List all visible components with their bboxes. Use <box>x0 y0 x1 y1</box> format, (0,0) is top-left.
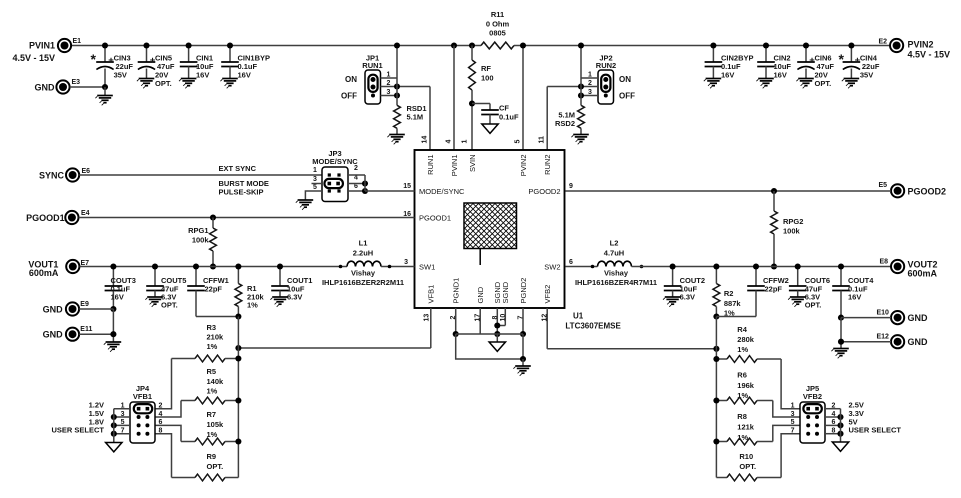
resistor R10 <box>716 452 781 481</box>
ground below PGND <box>513 359 530 376</box>
wire VFB2 <box>547 308 719 352</box>
pin RUN2 11 <box>539 136 552 175</box>
resistor RSD1 <box>394 96 427 135</box>
svg-text:210k: 210k <box>207 333 225 342</box>
svg-text:1: 1 <box>313 167 317 174</box>
resistor R2 <box>713 263 741 319</box>
wire VOUT2 rail <box>632 266 892 268</box>
svg-text:22pF: 22pF <box>765 285 783 294</box>
svg-text:0.1uF: 0.1uF <box>499 113 519 122</box>
svg-text:E9: E9 <box>80 301 89 308</box>
svg-text:Vishay: Vishay <box>604 269 629 278</box>
wire JP4 select bus to ground <box>111 409 130 443</box>
svg-text:4.7uH: 4.7uH <box>604 249 624 258</box>
svg-text:GND: GND <box>476 286 485 303</box>
resistor R4 <box>713 325 781 362</box>
svg-text:E8: E8 <box>880 258 889 265</box>
capacitor CIN6 <box>797 42 834 88</box>
svg-text:15: 15 <box>403 183 411 190</box>
pin PGOOD1 16 <box>403 211 451 222</box>
wire JP3 pin2 <box>348 174 365 176</box>
svg-text:SVIN: SVIN <box>468 155 477 173</box>
svg-text:*: * <box>91 51 97 67</box>
svg-text:1: 1 <box>588 72 592 79</box>
wire RUN1 column <box>429 87 431 151</box>
pin SGND 8 <box>492 281 502 319</box>
wire COUT4 to ground <box>838 318 844 349</box>
wire CFFW1 to R1 bottom <box>196 316 238 318</box>
svg-text:2: 2 <box>354 165 358 172</box>
wire JP2 feed vertical <box>578 42 584 95</box>
svg-text:3: 3 <box>313 176 317 183</box>
ground below JP3 <box>296 200 313 210</box>
svg-text:8: 8 <box>159 428 163 435</box>
svg-text:35V: 35V <box>860 71 873 80</box>
capacitor CIN1 <box>180 42 214 79</box>
pin MODE/SYNC 15 <box>403 183 465 196</box>
svg-text:OPT.: OPT. <box>739 462 756 471</box>
resistor R5 <box>181 367 241 404</box>
svg-text:11: 11 <box>539 136 546 144</box>
pin SVIN 1 <box>462 140 477 173</box>
capacitor CIN1BYP <box>221 42 270 79</box>
svg-text:1: 1 <box>462 140 469 144</box>
svg-text:GND: GND <box>35 83 56 93</box>
svg-text:1%: 1% <box>247 301 258 310</box>
svg-text:16V: 16V <box>721 71 734 80</box>
node PVIN2 label <box>908 40 951 60</box>
svg-text:OPT.: OPT. <box>207 462 224 471</box>
wire PGND bus <box>456 333 523 335</box>
capacitor CIN3 <box>91 42 134 90</box>
svg-text:RUN2: RUN2 <box>543 155 552 175</box>
svg-text:ON: ON <box>619 75 631 84</box>
svg-text:5: 5 <box>515 140 522 144</box>
svg-text:R6: R6 <box>737 371 747 380</box>
pin GND 17 <box>475 286 485 321</box>
labels JP3 pin numbers <box>313 165 358 191</box>
svg-text:35V: 35V <box>114 71 127 80</box>
svg-text:GND: GND <box>908 313 929 323</box>
wire E10 <box>841 317 891 319</box>
labels JP3 modes <box>219 164 269 197</box>
svg-text:E6: E6 <box>82 168 91 175</box>
svg-text:VFB1: VFB1 <box>427 285 436 304</box>
wire JP1 pin3 <box>381 89 401 99</box>
wire JP4 pin8 to R9 <box>155 434 172 478</box>
pin VFB1 13 <box>423 285 435 322</box>
capacitor COUT4 <box>832 263 874 320</box>
svg-text:14: 14 <box>422 136 429 144</box>
ground below CIN5 <box>137 79 154 89</box>
svg-text:2: 2 <box>159 403 163 410</box>
svg-text:600mA: 600mA <box>908 268 938 278</box>
svg-text:RUN2: RUN2 <box>596 61 616 70</box>
inductor L2 <box>566 239 658 288</box>
ground below COUT6 <box>788 297 805 307</box>
svg-text:R5: R5 <box>207 367 217 376</box>
svg-text:SW1: SW1 <box>419 262 435 271</box>
svg-text:PGOOD1: PGOOD1 <box>26 213 65 223</box>
svg-text:7: 7 <box>791 428 795 435</box>
svg-text:E3: E3 <box>72 79 81 86</box>
resistor R8 <box>713 412 772 445</box>
resistor RF <box>451 42 494 103</box>
capacitor CIN2 <box>757 42 791 79</box>
svg-text:E4: E4 <box>81 210 90 217</box>
svg-text:196k: 196k <box>737 381 755 390</box>
terminal E8 <box>880 258 905 273</box>
wire E11 <box>79 333 113 335</box>
pin PGND1 2 <box>450 278 460 320</box>
wire R4 to JP5 pin1 <box>781 359 800 409</box>
svg-text:100: 100 <box>481 74 494 83</box>
svg-text:3: 3 <box>791 411 795 418</box>
svg-text:PGND1: PGND1 <box>452 278 461 304</box>
wire R6 to JP5 pin3 <box>773 401 800 418</box>
svg-text:PVIN1: PVIN1 <box>450 155 459 177</box>
ground below E11 <box>104 342 121 352</box>
wire E12 <box>841 341 891 343</box>
jumper JP2 RUN2 <box>596 54 635 105</box>
ground below RSD1 <box>387 135 404 145</box>
wire PVIN2 column <box>520 42 526 150</box>
svg-text:GND: GND <box>43 330 64 340</box>
inductor L1 <box>322 239 415 288</box>
svg-text:VFB2: VFB2 <box>543 285 552 304</box>
node VOUT1 label <box>28 259 59 278</box>
wire JP3 pin3 stub <box>312 183 323 185</box>
capacitor CIN4 <box>839 42 880 79</box>
svg-text:1%: 1% <box>207 430 218 439</box>
terminal E11 <box>66 326 93 341</box>
svg-text:OPT.: OPT. <box>155 79 172 88</box>
wire VFB1 <box>235 308 430 351</box>
svg-text:105k: 105k <box>207 420 225 429</box>
pin SW1 3 <box>404 259 435 271</box>
node GND E10 label <box>908 313 929 323</box>
svg-text:16V: 16V <box>196 71 209 80</box>
wire COUT3 to ground <box>110 309 116 342</box>
svg-text:5: 5 <box>313 184 317 191</box>
svg-text:887k: 887k <box>724 299 742 308</box>
resistor RPG1 <box>188 214 216 269</box>
wire PGOOD2 <box>566 190 892 192</box>
node GND E11 label <box>43 330 64 340</box>
svg-text:E11: E11 <box>80 326 92 333</box>
svg-text:600mA: 600mA <box>29 268 59 278</box>
terminal E12 <box>877 334 905 349</box>
svg-text:RPG2: RPG2 <box>783 217 803 226</box>
svg-text:1%: 1% <box>737 391 748 400</box>
ground below CIN6 <box>796 79 813 89</box>
svg-text:L1: L1 <box>359 239 368 248</box>
pin SGND 10 <box>500 281 510 321</box>
svg-text:E2: E2 <box>879 39 888 46</box>
capacitor CIN2BYP <box>705 42 754 79</box>
svg-text:RF: RF <box>481 64 491 73</box>
ground below CIN3 <box>95 87 112 105</box>
svg-text:SGND: SGND <box>501 281 510 303</box>
terminal E3 <box>56 79 80 94</box>
wire PVIN1 column <box>453 46 455 151</box>
terminal E6 <box>66 168 90 182</box>
svg-text:IHLP1616BZER2R2M11: IHLP1616BZER2R2M11 <box>322 278 404 287</box>
labels JP5 voltages <box>849 401 902 435</box>
svg-text:R8: R8 <box>737 412 747 421</box>
resistor RPG2 <box>771 188 804 270</box>
svg-text:GND: GND <box>43 305 64 315</box>
svg-text:1%: 1% <box>207 387 218 396</box>
pin PGND2 7 <box>518 278 528 320</box>
svg-text:280k: 280k <box>737 335 755 344</box>
svg-text:2: 2 <box>588 80 592 87</box>
svg-text:E12: E12 <box>877 334 890 341</box>
capacitor CIN5 <box>138 42 175 88</box>
svg-text:RPG1: RPG1 <box>188 226 208 235</box>
labels JP4 voltages <box>51 401 104 435</box>
op-amp U1 LTC3607EMSE body <box>415 150 622 331</box>
svg-text:1: 1 <box>791 403 795 410</box>
svg-text:RUN1: RUN1 <box>362 61 382 70</box>
terminal E5 <box>879 182 905 197</box>
svg-text:1%: 1% <box>207 342 218 351</box>
svg-text:VFB2: VFB2 <box>803 392 822 401</box>
wire GND pin17 <box>479 308 481 334</box>
svg-text:R3: R3 <box>207 323 217 332</box>
jumper JP4 VFB1 <box>130 384 155 443</box>
svg-text:4: 4 <box>446 140 453 144</box>
wire JP1 feed vertical <box>394 42 400 95</box>
svg-text:0805: 0805 <box>489 29 506 38</box>
svg-text:R9: R9 <box>207 452 217 461</box>
ground below COUT1 <box>270 297 287 307</box>
capacitor CF <box>472 104 519 125</box>
node GND E3 label <box>35 83 56 93</box>
node GND E9 label <box>43 305 64 315</box>
svg-text:2: 2 <box>387 80 391 87</box>
wire JP4 pin6 to R7 <box>155 425 181 441</box>
svg-text:MODE/SYNC: MODE/SYNC <box>312 157 358 166</box>
svg-text:PVIN2: PVIN2 <box>908 40 934 50</box>
svg-text:0 Ohm: 0 Ohm <box>486 20 510 29</box>
wire E9 <box>79 308 113 310</box>
svg-text:PULSE-SKIP: PULSE-SKIP <box>219 188 264 197</box>
svg-text:PGND2: PGND2 <box>519 278 528 304</box>
svg-text:VFB1: VFB1 <box>133 392 152 401</box>
svg-text:OPT.: OPT. <box>161 301 178 310</box>
wire JP3 pin5 to ground <box>305 191 322 200</box>
svg-text:6.3V: 6.3V <box>680 293 695 302</box>
wire JP3 pin4 <box>348 180 368 186</box>
svg-text:5: 5 <box>791 419 795 426</box>
svg-text:3: 3 <box>387 89 391 96</box>
exposed pad <box>464 203 517 265</box>
svg-text:R11: R11 <box>491 10 504 19</box>
svg-text:MODE/SYNC: MODE/SYNC <box>419 187 465 196</box>
svg-text:L2: L2 <box>610 239 619 248</box>
wire JP4 pin2 to R3 <box>155 359 172 409</box>
svg-text:U1: U1 <box>573 312 584 321</box>
pin PGOOD2 9 <box>528 183 573 196</box>
ground below E12 <box>831 349 848 359</box>
ground below CIN1BYP <box>220 79 237 89</box>
wire JP2 pin2 to RUN2 <box>547 80 598 90</box>
svg-text:4: 4 <box>159 411 163 418</box>
svg-text:SYNC: SYNC <box>39 171 65 181</box>
svg-text:2.2uH: 2.2uH <box>353 249 373 258</box>
svg-text:121k: 121k <box>737 423 755 432</box>
svg-text:*: * <box>839 51 845 67</box>
svg-text:4.5V - 15V: 4.5V - 15V <box>908 50 951 60</box>
resistor R1 <box>235 263 265 319</box>
svg-text:16V: 16V <box>848 293 861 302</box>
wire JP1 pin1 <box>381 72 398 79</box>
node PGOOD2 label <box>908 186 947 196</box>
labels JP5 pin numbers <box>791 403 836 435</box>
svg-text:USER SELECT: USER SELECT <box>51 426 104 435</box>
svg-text:R7: R7 <box>207 410 217 419</box>
wire PGND2 pin7 <box>520 308 526 337</box>
capacitor COUT2 <box>664 263 705 301</box>
jumper JP3 MODE/SYNC <box>312 149 358 202</box>
ground below JP5 <box>832 442 848 451</box>
wire JP2 pin3 <box>578 89 598 99</box>
svg-text:100k: 100k <box>192 236 210 245</box>
capacitor COUT5 <box>146 263 186 309</box>
terminal E2 <box>879 39 904 53</box>
svg-text:E1: E1 <box>73 38 82 45</box>
node GND E12 label <box>908 337 929 347</box>
svg-text:6: 6 <box>159 419 163 426</box>
pin PVIN2 5 <box>515 140 528 177</box>
svg-text:ON: ON <box>345 75 357 84</box>
ground below COUT5 <box>145 297 162 307</box>
svg-text:OFF: OFF <box>341 92 357 101</box>
svg-text:CF: CF <box>499 104 509 113</box>
jumper JP1 RUN1 <box>341 54 383 105</box>
svg-text:E5: E5 <box>879 182 888 189</box>
wire top rail PVIN1 to PVIN2 <box>71 45 890 47</box>
pin VFB2 12 <box>542 285 552 322</box>
pin SW2 6 <box>544 259 573 271</box>
pin PVIN1 4 <box>446 140 459 177</box>
wire VFB2 bus <box>715 317 717 478</box>
node SYNC label <box>39 171 65 181</box>
svg-text:OPT.: OPT. <box>815 79 832 88</box>
svg-text:OPT.: OPT. <box>805 301 822 310</box>
svg-text:22pF: 22pF <box>205 285 223 294</box>
svg-text:Vishay: Vishay <box>351 269 376 278</box>
svg-text:USER SELECT: USER SELECT <box>849 426 902 435</box>
svg-text:5.1M: 5.1M <box>407 113 424 122</box>
wire JP3 pin6 to MODE/SYNC <box>348 175 415 194</box>
svg-text:GND: GND <box>908 337 929 347</box>
svg-text:RUN1: RUN1 <box>426 155 435 175</box>
wire JP1 pin2 to RUN1 <box>381 80 431 90</box>
wire JP5 select bus to ground <box>825 409 844 442</box>
terminal E1 <box>58 38 81 52</box>
svg-text:16V: 16V <box>774 71 787 80</box>
node PGOOD1 label <box>26 213 65 223</box>
resistor R9 <box>172 452 239 481</box>
capacitor COUT3 <box>105 263 136 312</box>
svg-text:3: 3 <box>588 89 592 96</box>
wire JP4 pin4 to R5 <box>155 401 181 418</box>
ground below CF <box>482 124 498 133</box>
svg-text:16V: 16V <box>111 293 124 302</box>
node VOUT2 label <box>908 260 938 279</box>
svg-text:1%: 1% <box>737 433 748 442</box>
wire PGOOD1 <box>79 217 415 219</box>
ground below CIN4 <box>842 79 859 89</box>
resistor R7 <box>181 410 241 445</box>
terminal E9 <box>66 301 89 316</box>
terminal E7 <box>66 260 89 273</box>
svg-text:PGOOD1: PGOOD1 <box>419 213 451 222</box>
svg-text:16V: 16V <box>238 71 251 80</box>
ground below CIN2BYP <box>704 79 721 89</box>
resistor R3 <box>172 323 242 362</box>
terminal E4 <box>65 210 89 224</box>
ground below CIN1 <box>179 79 196 89</box>
svg-text:R4: R4 <box>737 325 747 334</box>
terminal E10 <box>877 310 905 325</box>
capacitor CFFW2 <box>747 263 789 316</box>
svg-text:6: 6 <box>569 259 573 266</box>
resistor R6 <box>713 371 772 404</box>
labels JP4 pin numbers <box>121 403 163 435</box>
svg-text:SW2: SW2 <box>544 262 560 271</box>
wire SYNC to JP3 pin1 <box>79 174 322 176</box>
svg-text:9: 9 <box>569 183 573 190</box>
resistor R11 <box>481 10 514 49</box>
svg-text:1%: 1% <box>737 345 748 354</box>
resistor RSD2 <box>555 96 584 135</box>
svg-text:6.3V: 6.3V <box>287 293 302 302</box>
svg-text:PVIN1: PVIN1 <box>29 41 55 51</box>
svg-text:PGOOD2: PGOOD2 <box>528 187 560 196</box>
svg-text:100k: 100k <box>783 227 801 236</box>
wire SGND pins <box>494 308 505 337</box>
ground below RSD2 <box>571 135 588 145</box>
capacitor COUT1 <box>271 263 312 301</box>
jumper JP5 VFB2 <box>800 384 825 443</box>
svg-text:RSD2: RSD2 <box>555 119 575 128</box>
wire VFB1 bus <box>237 317 239 478</box>
svg-text:140k: 140k <box>207 377 225 386</box>
svg-text:13: 13 <box>423 314 430 322</box>
node PVIN1 label <box>12 41 55 64</box>
svg-text:3: 3 <box>404 259 408 266</box>
svg-text:E10: E10 <box>877 310 890 317</box>
wire SVIN column <box>469 100 475 150</box>
svg-text:PVIN2: PVIN2 <box>519 155 528 177</box>
capacitor CFFW1 <box>187 263 229 316</box>
pin RUN1 14 <box>422 136 435 175</box>
svg-text:1: 1 <box>387 72 391 79</box>
wire CFFW2 to R2 bottom <box>716 316 756 318</box>
svg-text:R2: R2 <box>724 289 734 298</box>
wire JP2 pin1 <box>581 72 598 79</box>
wire VOUT1 rail <box>80 266 348 268</box>
wire E3 to CIN3 ground node <box>70 86 105 88</box>
svg-text:EXT SYNC: EXT SYNC <box>219 164 257 173</box>
svg-text:OFF: OFF <box>619 92 635 101</box>
svg-text:R10: R10 <box>739 452 753 461</box>
wire RUN2 column <box>546 87 548 151</box>
svg-text:4.5V - 15V: 4.5V - 15V <box>12 53 55 63</box>
